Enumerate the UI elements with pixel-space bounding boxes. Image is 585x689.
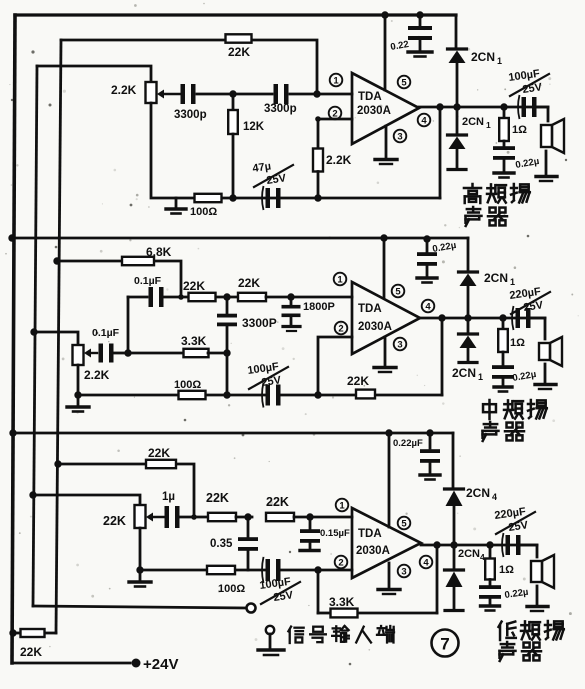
pin 5 ch2 [392, 285, 405, 298]
svg-text:100Ω: 100Ω [190, 206, 217, 218]
wire ch3 pin1 net a [180, 516, 207, 519]
svg-text:1: 1 [337, 274, 343, 285]
wire ch1 2.2K to rail [317, 172, 320, 199]
resistor 100Ω ch1 [190, 194, 222, 218]
speaker 中频扬声器 ch2 [535, 337, 562, 389]
resistor 12K ch1 [228, 94, 265, 198]
wire ch1 pin1 net a [197, 93, 229, 96]
ground ch2 rail [67, 395, 89, 412]
pin 1 ch1 [330, 74, 343, 87]
wire ch2 feedback vertical [441, 318, 444, 395]
wire ch1 pin2 [315, 116, 352, 149]
svg-text:2CN: 2CN [458, 548, 480, 560]
node ch2 pot feed junction [30, 328, 37, 335]
potentiometer 22K ch3 volume [103, 505, 146, 528]
terminal signal input (hot) [247, 604, 256, 613]
svg-text:1: 1 [486, 120, 491, 130]
capacitor 3300P ch2 [217, 297, 277, 353]
svg-text:7: 7 [440, 635, 449, 654]
svg-text:4: 4 [492, 492, 497, 502]
node ch3 0.35 junction [244, 513, 251, 520]
terminal signal input ground [258, 626, 284, 655]
capacitor 0.22µ ch1 zobel [493, 141, 540, 178]
node junction 22K bias on +24V rail [9, 629, 16, 636]
diode 2CN4 ch3 lower [445, 545, 486, 611]
node ch1 12K bottom [229, 194, 236, 201]
svg-text:TDA: TDA [358, 528, 382, 540]
wire ch2 wiper net [114, 352, 126, 355]
svg-text:1: 1 [510, 277, 515, 287]
svg-text:0.35: 0.35 [210, 538, 233, 550]
svg-text:2.2K: 2.2K [111, 83, 137, 97]
capacitor 0.22µ ch3 zobel [479, 580, 529, 611]
svg-text:TDA: TDA [358, 303, 382, 315]
resistor 22K ch1 bias [226, 34, 252, 59]
wire ch1 +24V top rail [15, 13, 456, 16]
diode 2CN1 ch1 upper [448, 49, 503, 66]
svg-text:47µ: 47µ [252, 161, 272, 175]
label 中频扬声器 ch2 [483, 400, 547, 441]
node ch2 1800P junction [287, 293, 294, 300]
node ch3 0.22µF cap junction [426, 429, 433, 436]
capacitor 0.22µ ch2 decoupling [417, 239, 457, 283]
resistor 22K ch2 feedback [347, 374, 375, 398]
resistor 22K ch2 second [216, 276, 352, 301]
svg-text:3.3K: 3.3K [181, 334, 207, 348]
wire ch3 pin2 rail [140, 569, 352, 572]
wire ch3 rail corner to diode [452, 433, 455, 488]
pin 1 ch2 [334, 273, 347, 286]
diode 2CN1 ch1 lower [448, 107, 492, 170]
wire bias distribution vertical [56, 40, 61, 633]
capacitor 0.22µF ch3 decoupling [393, 433, 440, 480]
wire ch2 3300P to rail [226, 353, 229, 395]
capacitor 0.22 ch1 decoupling [390, 15, 432, 57]
node ch1 pin5 rail junction [381, 11, 388, 18]
ground ch3 rail [129, 570, 151, 587]
wire +24V supply rail left vertical [12, 15, 15, 663]
wire ch2 to speaker [530, 318, 545, 339]
svg-text:0.22µF: 0.22µF [393, 438, 423, 449]
node ch1 0.22 cap junction [416, 11, 423, 18]
node ch3 0.15µF junction [306, 513, 313, 520]
wire ch2 split vertical [127, 297, 130, 353]
node ch2 0.22µ cap junction [423, 235, 430, 242]
svg-text:22K: 22K [206, 491, 229, 505]
resistor 22K bias network [20, 629, 45, 659]
node ch3 feedback junction [314, 566, 321, 573]
pin 4 ch1 [418, 114, 431, 127]
wire ch2 rail corner to diode [467, 238, 470, 271]
pin 2 ch1 [329, 107, 342, 120]
pin 1 ch3 [336, 499, 349, 512]
svg-text:0.1µF: 0.1µF [134, 275, 162, 287]
svg-text:22K: 22K [103, 514, 126, 528]
speaker 低频扬声器 ch3 [527, 555, 554, 611]
wire ch1 rail corner to diode [455, 15, 458, 48]
wire ch1 feedback vertical [439, 107, 442, 198]
wire ch2 pot wiper w/ arrow [84, 349, 97, 358]
svg-text:1: 1 [339, 500, 345, 511]
capacitor 100µF/25V ch1 output [508, 68, 549, 119]
resistor 6.8K ch2 bias [122, 245, 172, 265]
node ch1 feedback junction [436, 103, 443, 110]
svg-text:2CN: 2CN [484, 271, 508, 285]
svg-text:2030A: 2030A [357, 105, 391, 117]
node ch2 3300P rail junction [223, 391, 230, 398]
resistor 22K ch3 second [236, 495, 352, 521]
capacitor 0.22µ ch2 zobel [492, 352, 537, 392]
pin 4 ch3 [420, 556, 433, 569]
svg-text:6.8K: 6.8K [146, 245, 172, 259]
wire ch3 +24V rail [13, 432, 453, 435]
node ch2 pot ground junction [74, 391, 81, 398]
capacitor 100µF/25V ch2 [247, 361, 288, 408]
wire ch1 pot feed [37, 66, 151, 82]
capacitor 3300p ch1 second [264, 84, 297, 115]
wire ch1 pot wiper w/ arrow [157, 90, 180, 99]
label 信号输入端 (signal input terminal) [288, 626, 394, 643]
svg-text:4: 4 [423, 557, 429, 568]
node ch2 diode output junction [464, 314, 471, 321]
wire ch2 pin2 [318, 337, 352, 395]
node ch3 22K bias junction [54, 460, 61, 467]
wire signal distribution vertical [33, 66, 37, 606]
ground ch3 pin3 [378, 563, 400, 594]
svg-text:0.15µF: 0.15µF [320, 528, 350, 539]
node ch3 diode output junction [450, 541, 457, 548]
node ch1 22K/pin1 junction [313, 90, 320, 97]
svg-text:22K: 22K [20, 645, 42, 659]
wire ch3 to speaker [520, 545, 537, 557]
svg-text:3: 3 [397, 339, 402, 350]
svg-text:5: 5 [401, 518, 407, 529]
svg-text:2CN: 2CN [471, 50, 495, 64]
svg-text:2: 2 [338, 557, 343, 568]
resistor 22K ch3 first [206, 491, 236, 521]
node ch2 input split junction [124, 349, 131, 356]
capacitor 0.35 ch3 [210, 517, 258, 570]
resistor 100Ω ch2 [174, 379, 206, 399]
svg-text:2CN: 2CN [466, 486, 490, 500]
diode 2CN4 ch3 upper [445, 486, 498, 506]
svg-text:1Ω: 1Ω [510, 337, 525, 349]
svg-text:2.2K: 2.2K [326, 153, 352, 167]
wire +24V bottom feed [13, 632, 56, 635]
wire ch2 pot bottom [77, 365, 80, 395]
capacitor 1800P ch2 [282, 297, 335, 331]
wire ch3 pin5 supply [388, 433, 391, 527]
svg-text:3: 3 [397, 131, 402, 142]
svg-text:1Ω: 1Ω [499, 564, 514, 576]
wire ch1 bottom rail [151, 103, 440, 198]
ground ch1 rail [166, 198, 186, 214]
svg-text:3300p: 3300p [264, 103, 297, 115]
resistor 100Ω ch3 [207, 566, 245, 595]
resistor 1Ω ch2 zobel [498, 318, 525, 352]
label 低频扬声器 ch3 [499, 621, 564, 661]
resistor 3.3K ch2 [128, 334, 227, 357]
svg-text:+24V: +24V [143, 656, 178, 673]
svg-text:22K: 22K [238, 276, 260, 290]
wire ch1 to speaker [536, 107, 548, 121]
resistor 22K ch3 bias [146, 446, 176, 468]
node ch2 3300P top junction [223, 293, 230, 300]
wire ch3 22K line [58, 464, 194, 517]
node ch2 feedback output junction [438, 314, 445, 321]
svg-text:1: 1 [497, 56, 502, 66]
wire ch2 6.8K line [57, 261, 181, 297]
svg-text:3300p: 3300p [174, 109, 207, 121]
node ch3 pin5 rail junction [385, 429, 392, 436]
op-amp U3 TDA2030A ch3 [352, 508, 421, 578]
svg-text:22K: 22K [183, 279, 205, 293]
svg-text:2: 2 [338, 323, 343, 334]
wire ch3 diode to output [453, 506, 456, 545]
node ch3 1Ω junction [486, 541, 493, 548]
label 高频扬声器 ch1 [464, 184, 530, 226]
svg-text:100Ω: 100Ω [218, 583, 245, 595]
wire signal input line [33, 606, 246, 608]
svg-text:22K: 22K [347, 374, 369, 388]
resistor 1Ω ch1 zobel [499, 107, 527, 141]
potentiometer 2.2K ch1 volume [111, 82, 157, 103]
pin 2 ch3 [335, 556, 348, 569]
capacitor 0.15µF ch3 [300, 517, 350, 551]
svg-text:2CN: 2CN [452, 366, 476, 380]
node ch2 pin5 rail junction [380, 234, 387, 241]
capacitor 1µ ch3 input [162, 491, 180, 528]
resistor 22K ch2 first [183, 279, 216, 301]
wire ch2 pot feed [34, 332, 78, 345]
node ch1 1Ω junction [500, 103, 507, 110]
wire ch1 pin1 net b [237, 93, 352, 96]
svg-text:1: 1 [478, 372, 483, 382]
svg-text:12K: 12K [243, 121, 265, 133]
pin 5 ch1 [398, 76, 411, 89]
wire ch3 pot bottom [139, 528, 142, 570]
svg-text:0.1µF: 0.1µF [92, 327, 120, 339]
svg-text:5: 5 [395, 286, 401, 297]
svg-text:3300P: 3300P [242, 316, 277, 330]
node ch2 1Ω junction [499, 314, 506, 321]
node ch2 6.8K bias junction [53, 257, 60, 264]
pin 2 ch2 [335, 322, 348, 335]
wire ch2 output line [420, 317, 545, 320]
node ch1 diode output junction [453, 103, 460, 110]
diode 2CN1 ch2 lower [452, 318, 483, 382]
svg-text:1800P: 1800P [303, 301, 335, 313]
svg-text:2030A: 2030A [358, 321, 392, 333]
svg-text:100Ω: 100Ω [174, 379, 201, 391]
svg-text:22K: 22K [228, 45, 250, 59]
diode 2CN1 ch2 upper [459, 271, 516, 287]
node ch1 12K top [229, 90, 236, 97]
node ch2 3.3K/3300P junction [223, 349, 230, 356]
node ch3 feedback output junction [433, 541, 440, 548]
op-amp U2 TDA2030A ch2 [352, 282, 420, 354]
wire ch2 diode to output [467, 287, 470, 318]
wire ch2 +24V rail [12, 237, 468, 240]
svg-text:2.2K: 2.2K [84, 368, 110, 382]
svg-text:1Ω: 1Ω [512, 124, 527, 136]
svg-text:TDA: TDA [358, 91, 382, 103]
wire ch1 22K bias line [61, 40, 317, 94]
capacitor 0.1µF ch2 input [92, 327, 120, 363]
node junction ch3 rail on +24V rail [9, 429, 16, 436]
node ch1 2.2K bottom [314, 194, 321, 201]
wire ch1 diode to output [456, 64, 459, 107]
wire ch1 pin5 supply [384, 15, 387, 90]
node ch3 pot feed junction [29, 491, 36, 498]
node ch3 22K drop junction [191, 514, 197, 520]
pin 3 ch2 [394, 338, 407, 351]
svg-text:5: 5 [401, 77, 407, 88]
svg-text:3: 3 [401, 566, 406, 577]
op-amp U1 TDA2030A ch1 [352, 73, 419, 144]
wire ch3 pot wiper w/ arrow [146, 513, 165, 522]
node ch2 6.8K drop junction [178, 294, 184, 300]
pin 3 ch3 [398, 565, 411, 578]
wire ch3 feedback drop [318, 545, 437, 613]
ground ch1 pin3 [375, 126, 397, 164]
capacitor 3300p ch1 input [174, 84, 207, 121]
node junction ch2 rail on +24V rail [8, 234, 15, 241]
capacitor 220µF/25V ch3 output [494, 506, 535, 557]
capacitor 220µF/25V ch2 output [509, 286, 550, 330]
capacitor 47µ/25V ch1 [252, 161, 293, 210]
wire ch3 pot feed [33, 495, 140, 505]
wire ch1 output line [419, 106, 548, 109]
node ch3 pot ground junction [136, 566, 143, 573]
speaker 高频扬声器 ch1 [536, 119, 564, 181]
svg-text:3.3K: 3.3K [329, 595, 355, 609]
wire ch3 output line [421, 544, 537, 547]
svg-text:4: 4 [421, 115, 427, 126]
svg-text:22K: 22K [266, 495, 289, 509]
resistor 3.3K ch3 feedback [329, 595, 358, 617]
wire ch2 bottom rail [78, 394, 442, 397]
label circled figure 7 [432, 630, 459, 657]
wire +24V terminal line [12, 662, 130, 665]
wire ch2 pin5 supply [383, 238, 386, 297]
pin 4 ch2 [422, 300, 435, 313]
svg-text:22K: 22K [148, 446, 170, 460]
node ch2 pin2 rail junction [314, 391, 321, 398]
capacitor 100µF/25V ch3 [259, 557, 300, 604]
svg-text:1µ: 1µ [162, 491, 175, 503]
svg-text:4: 4 [425, 301, 431, 312]
svg-text:2030A: 2030A [356, 545, 390, 557]
resistor 2.2K ch1 feedback [313, 149, 352, 172]
potentiometer 2.2K ch2 volume [73, 345, 110, 382]
terminal +24V [132, 656, 179, 673]
capacitor 0.1µF ch2 upper [128, 275, 188, 307]
ground ch2 pin3 [374, 337, 396, 372]
svg-text:1: 1 [333, 75, 339, 86]
svg-text:2CN: 2CN [462, 116, 484, 128]
resistor 1Ω ch3 zobel [485, 545, 514, 580]
pin 5 ch3 [398, 517, 411, 530]
pin 3 ch1 [394, 130, 407, 143]
